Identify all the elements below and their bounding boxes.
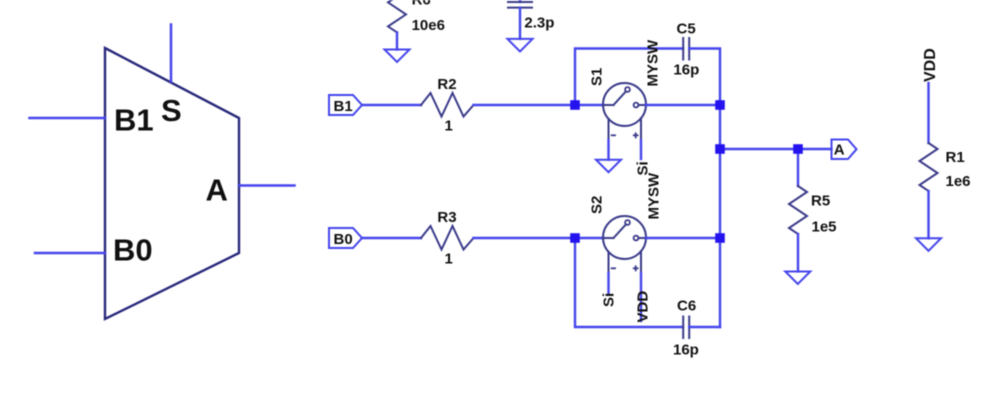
switch S1 body [603,83,646,126]
junction node N3 [715,100,725,110]
svg-text:R6: R6 [412,0,431,9]
switch S1 pivot lead [603,104,614,106]
junction node N5 [793,144,803,154]
ground under R6 [385,50,410,63]
ground under R5 [785,272,810,285]
svg-text:C5: C5 [677,21,696,38]
wire R2 to node N1 [474,104,604,106]
svg-text:10e6: 10e6 [412,17,445,34]
wire C4 to ground [519,8,521,39]
wire R6 to ground [396,32,398,49]
svg-text:A: A [206,173,228,208]
resistor R2 [421,93,474,117]
svg-text:MYSW: MYSW [645,172,662,220]
wire S2 minus control [607,273,609,293]
svg-text:16p: 16p [673,342,699,359]
wire B0 flag to R3 [362,237,421,239]
svg-text:B0: B0 [113,233,153,268]
switch S2 pivot lead [603,237,614,239]
switch S2 arm contact circle [625,220,630,225]
svg-text:B1: B1 [114,103,154,138]
wire C6 to rail [689,326,720,328]
mux U1 body [105,48,239,319]
wire R5 to ground [797,234,799,272]
svg-text:R3: R3 [437,209,456,226]
switch S1 plus sign [634,133,638,137]
svg-text:Si: Si [601,293,618,307]
svg-text:S1: S1 [589,68,606,86]
wire R3 to node N2 [474,237,604,239]
svg-text:VDD: VDD [922,48,939,82]
ground under S1 [596,160,621,173]
wire C5 to rail corner [689,49,720,328]
ground under C4 [508,39,533,52]
wire A row [720,148,832,150]
svg-text:2.3p: 2.3p [524,15,554,32]
svg-text:1e6: 1e6 [946,173,971,190]
port flag A [832,140,857,160]
svg-text:S2: S2 [589,196,606,214]
switch S1 plus stub [640,118,642,140]
junction node N6 [715,233,725,243]
capacitor C4 top stub [519,0,521,2]
resistor R1 [920,143,938,191]
mux pin B0 [35,252,105,255]
wire S1 minus to ground [607,140,609,160]
switch S1 minus stub [608,119,610,140]
svg-text:R5: R5 [811,193,830,210]
svg-text:1e5: 1e5 [812,219,837,236]
svg-text:MYSW: MYSW [645,39,662,87]
svg-text:R2: R2 [437,76,456,93]
wire S2 out to rail [646,237,720,239]
capacitor C4 plates (2.3p) [508,2,532,8]
wire VDD to R1 [927,83,929,143]
junction node N1 [570,100,580,110]
resistor R6 [388,0,406,32]
capacitor C5 plates [683,38,689,60]
wire R1 to ground [927,191,929,238]
switch S2 arm [614,224,626,238]
svg-text:A: A [834,142,845,159]
switch S2 plus sign [634,266,638,270]
capacitor C6 plates [683,317,689,339]
resistor R5 [789,186,807,234]
switch S1 minus sign [612,134,615,136]
wire R5 top lead [797,149,799,186]
svg-text:VDD: VDD [635,291,652,323]
switch S2 plus stub [640,251,642,273]
wire B1 flag to R2 [362,104,421,106]
junction node N2 [570,233,580,243]
svg-text:C6: C6 [677,298,696,315]
switch S2 body [603,216,646,259]
svg-text:1: 1 [445,118,453,135]
wire S1 out to rail [646,104,720,106]
switch S2 throw contact circle [634,236,639,241]
switch S1 throw contact circle [634,103,639,108]
ground under R1 [916,238,941,251]
switch S2 minus stub [608,252,610,273]
wire S1 plus control [640,140,642,159]
svg-text:B0: B0 [334,231,353,248]
svg-text:S: S [161,93,182,128]
svg-text:B1: B1 [334,98,353,115]
mux pin B1 [30,117,106,120]
resistor R3 [421,226,474,250]
mux pin A [239,184,295,187]
switch S2 output lead [638,237,646,239]
switch S2 minus sign [612,267,615,269]
switch S1 arm [614,91,626,105]
mux pin S [170,25,173,82]
wire bypass2 left vertical [575,238,683,327]
wire bypass1 left vertical [575,49,683,106]
svg-text:16p: 16p [673,62,699,79]
port flag B0 [329,228,362,248]
switch S1 output lead [638,104,646,106]
port flag B1 [329,95,362,115]
svg-text:R1: R1 [946,149,965,166]
svg-text:1: 1 [445,251,453,268]
switch S1 arm contact circle [625,87,630,92]
wire S2 plus control [640,273,642,321]
junction node N4 [715,144,725,154]
